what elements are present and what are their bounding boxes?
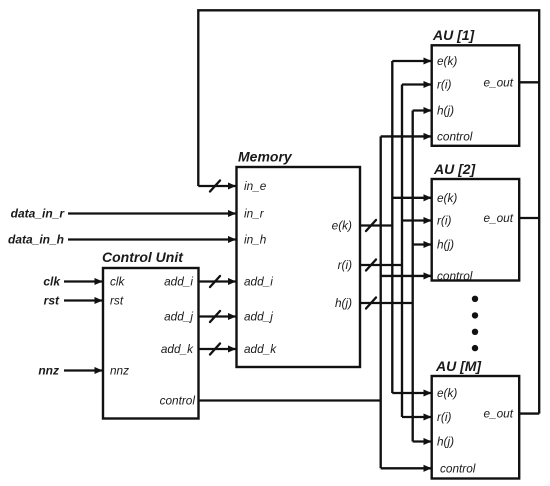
svg-text:in_r: in_r [244,207,265,221]
svg-text:data_in_h: data_in_h [8,233,64,247]
svg-text:Control Unit: Control Unit [102,249,184,265]
svg-text:Memory: Memory [238,148,293,164]
svg-text:h(j): h(j) [437,238,454,252]
svg-text:h(j): h(j) [437,104,454,118]
svg-text:h(j): h(j) [437,435,454,449]
svg-text:e_out: e_out [483,407,513,421]
svg-text:r(i): r(i) [338,258,352,272]
svg-text:r(i): r(i) [437,214,451,228]
svg-text:e(k): e(k) [437,191,457,205]
svg-text:control: control [437,129,473,143]
svg-text:e_out: e_out [483,211,513,225]
svg-text:add_i: add_i [164,275,193,289]
svg-text:nnz: nnz [110,364,129,378]
svg-text:rst: rst [44,294,60,308]
svg-text:data_in_r: data_in_r [11,207,66,221]
svg-text:clk: clk [110,275,126,289]
svg-text:AU [M]: AU [M] [435,358,482,374]
svg-text:r(i): r(i) [437,78,451,92]
svg-text:add_j: add_j [164,310,193,324]
svg-text:control: control [160,394,196,408]
svg-text:add_j: add_j [244,310,273,324]
svg-text:e(k): e(k) [437,386,457,400]
svg-text:r(i): r(i) [437,410,451,424]
svg-text:nnz: nnz [38,364,59,378]
svg-text:AU [2]: AU [2] [433,161,477,177]
svg-text:add_i: add_i [244,275,273,289]
svg-text:e(k): e(k) [437,54,457,68]
svg-text:control: control [440,461,476,475]
svg-text:rst: rst [110,294,124,308]
svg-text:e_out: e_out [483,76,513,90]
svg-text:control: control [437,269,473,283]
svg-text:AU [1]: AU [1] [432,27,476,43]
svg-text:e(k): e(k) [332,219,352,233]
svg-text:add_k: add_k [244,342,277,356]
svg-text:clk: clk [43,275,61,289]
svg-text:add_k: add_k [161,342,194,356]
svg-text:in_h: in_h [244,233,267,247]
svg-text:h(j): h(j) [335,296,352,310]
svg-text:in_e: in_e [244,179,267,193]
